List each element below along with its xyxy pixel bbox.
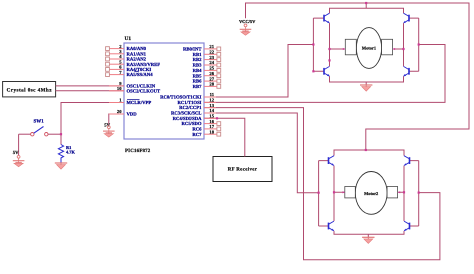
svg-text:Motor1: Motor1 <box>362 46 376 51</box>
svg-text:RB6: RB6 <box>193 79 203 85</box>
svg-text:16: 16 <box>209 119 214 124</box>
svg-text:23: 23 <box>209 55 214 60</box>
svg-text:VCC/5V: VCC/5V <box>239 19 256 24</box>
svg-text:RF Receiver: RF Receiver <box>228 167 258 173</box>
svg-text:RA3/AN3/VREF: RA3/AN3/VREF <box>127 62 161 68</box>
svg-text:Motor2: Motor2 <box>364 191 378 196</box>
svg-text:10: 10 <box>117 86 122 91</box>
svg-text:OSC2/CLKOUT: OSC2/CLKOUT <box>127 88 161 94</box>
svg-text:RA4/T0CKI: RA4/T0CKI <box>127 67 152 73</box>
svg-text:RB2: RB2 <box>193 57 203 63</box>
svg-text:RB4: RB4 <box>193 68 203 74</box>
svg-text:RA5/SS/AN4: RA5/SS/AN4 <box>127 72 154 78</box>
svg-text:RB7: RB7 <box>193 84 203 90</box>
svg-text:RB3: RB3 <box>193 63 203 69</box>
svg-text:PIC16F872: PIC16F872 <box>125 148 151 154</box>
svg-text:U1: U1 <box>125 36 132 42</box>
svg-text:RC0/T1OSO/T1CKI: RC0/T1OSO/T1CKI <box>160 95 202 101</box>
svg-text:RC3/SCK/SCL: RC3/SCK/SCL <box>171 111 201 117</box>
svg-text:21: 21 <box>209 44 214 49</box>
svg-text:RA0/AN0: RA0/AN0 <box>127 46 147 52</box>
svg-text:RB1: RB1 <box>193 52 203 58</box>
svg-text:SW1: SW1 <box>34 118 45 124</box>
svg-text:RB5: RB5 <box>193 73 203 79</box>
svg-text:14: 14 <box>209 108 214 113</box>
svg-text:18: 18 <box>209 129 214 134</box>
svg-text:RC1/T1OSI: RC1/T1OSI <box>178 100 202 106</box>
svg-text:13: 13 <box>209 103 214 108</box>
svg-text:20: 20 <box>117 109 122 114</box>
svg-text:22: 22 <box>209 50 214 55</box>
svg-text:RB0/INT: RB0/INT <box>183 47 202 53</box>
svg-text:RA2/AN2: RA2/AN2 <box>127 57 147 63</box>
svg-text:Crystal 0sc 4Mhz: Crystal 0sc 4Mhz <box>7 87 53 93</box>
svg-text:RA1/AN1: RA1/AN1 <box>127 51 147 57</box>
svg-text:24: 24 <box>209 60 214 65</box>
svg-text:RC4/SDI/SDA: RC4/SDI/SDA <box>173 116 203 122</box>
svg-text:15: 15 <box>209 114 214 119</box>
svg-text:25: 25 <box>209 66 214 71</box>
svg-text:17: 17 <box>209 124 214 129</box>
svg-text:RC7: RC7 <box>192 132 202 138</box>
svg-text:27: 27 <box>209 76 214 81</box>
svg-text:VDD: VDD <box>127 112 138 118</box>
svg-text:28: 28 <box>209 82 214 87</box>
svg-text:MCLR/VPP: MCLR/VPP <box>127 100 152 106</box>
svg-text:26: 26 <box>209 71 214 76</box>
svg-text:RC2/CCP1: RC2/CCP1 <box>179 105 202 111</box>
svg-text:RC5/SDO: RC5/SDO <box>181 121 201 127</box>
svg-text:RC6: RC6 <box>192 127 202 133</box>
svg-text:4.7K: 4.7K <box>66 149 75 154</box>
svg-text:11: 11 <box>210 92 215 97</box>
